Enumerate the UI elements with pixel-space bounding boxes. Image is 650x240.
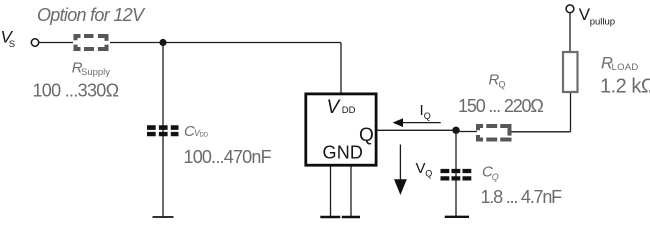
wire IC GND pin 2 down	[350, 167, 352, 217]
wire junction down to CVDD	[162, 43, 164, 217]
resistor RSupply dashed box	[76, 36, 107, 49]
svg-text:Supply: Supply	[81, 67, 110, 78]
capacitor CQ	[441, 171, 472, 178]
svg-text:GND: GND	[323, 143, 364, 163]
svg-text:Q: Q	[492, 172, 499, 182]
wire up to RLOAD bottom	[570, 92, 572, 132]
wire VS to RSupply	[39, 42, 73, 44]
label CQ	[482, 164, 499, 182]
ground at IC pin 1	[320, 216, 340, 219]
svg-text:V: V	[416, 160, 426, 177]
terminal Vpullup	[566, 5, 574, 13]
voltage arrow VQ	[394, 145, 407, 196]
svg-text:Q: Q	[424, 111, 431, 121]
capacitor CVDD	[147, 128, 179, 135]
svg-text:150 ... 220Ω: 150 ... 220Ω	[458, 96, 543, 116]
svg-text:Option for 12V: Option for 12V	[37, 5, 146, 25]
label RSupply	[72, 59, 110, 78]
svg-text:100 ...330Ω: 100 ...330Ω	[33, 80, 119, 100]
node junction at CVDD branch	[159, 39, 166, 46]
wire RQ to RLOAD	[512, 131, 571, 133]
ground at CVDD	[153, 216, 174, 218]
svg-text:pullup: pullup	[590, 17, 615, 28]
wire junction down to CQ	[455, 130, 457, 216]
label VQ	[416, 160, 433, 179]
wire RLOAD top to Vpullup terminal	[569, 13, 571, 52]
svg-text:1.2 kΩ: 1.2 kΩ	[600, 76, 650, 98]
resistor RQ dashed box	[478, 126, 510, 140]
wire down into IC VDD pin	[340, 43, 342, 94]
label Vpullup	[579, 5, 615, 28]
terminal VS	[31, 39, 38, 46]
label RLOAD	[601, 55, 639, 74]
svg-text:Q: Q	[425, 169, 432, 179]
wire Q output to junction	[377, 129, 456, 131]
wire junction to RQ	[456, 131, 477, 133]
label CVDD	[184, 123, 209, 140]
svg-text:DD: DD	[342, 105, 356, 116]
IC U1 box	[306, 94, 376, 165]
node junction at Q net	[452, 127, 459, 134]
wire RSupply to IC top corner	[110, 42, 341, 44]
label RQ	[489, 72, 506, 90]
svg-text:DD: DD	[200, 133, 209, 139]
wire IC GND pin 1 down	[330, 167, 332, 217]
resistor RLOAD	[563, 52, 578, 92]
svg-text:S: S	[9, 39, 15, 50]
svg-text:Q: Q	[499, 80, 506, 90]
IC pin label VDD	[327, 97, 356, 118]
label IQ	[420, 102, 431, 121]
current arrow IQ	[393, 118, 441, 127]
ground at IC pin 2	[342, 216, 360, 219]
node VS label	[1, 27, 16, 50]
ground at CQ	[445, 216, 469, 218]
svg-text:1.8 ... 4.7nF: 1.8 ... 4.7nF	[481, 187, 563, 207]
svg-text:100...470nF: 100...470nF	[184, 147, 272, 167]
svg-text:LOAD: LOAD	[612, 62, 639, 73]
